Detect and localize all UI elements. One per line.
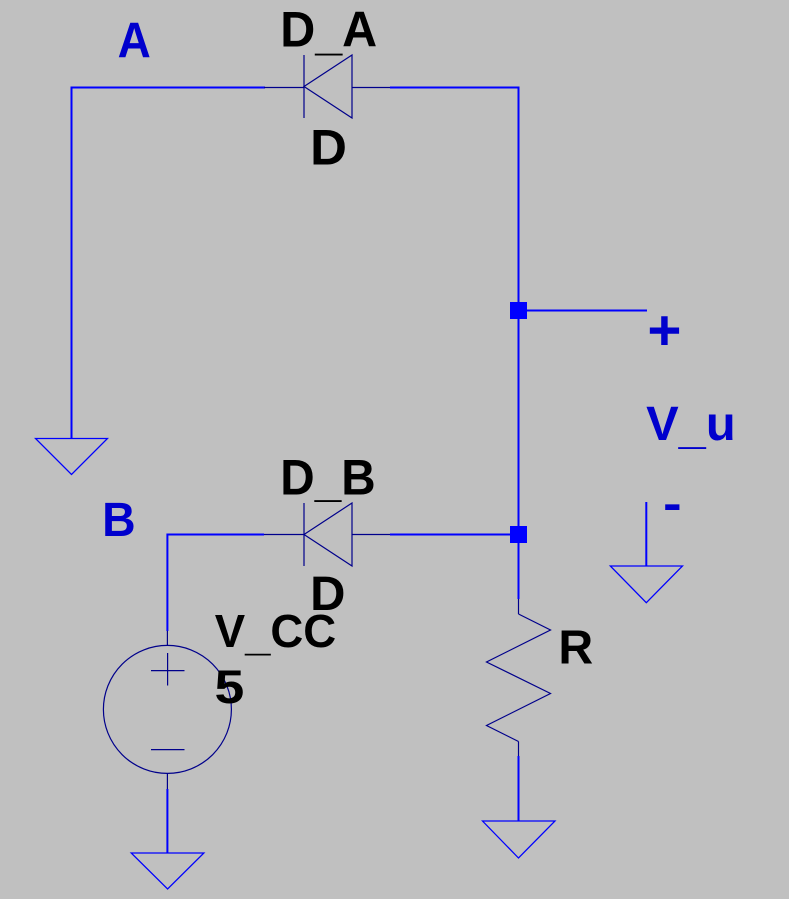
ground GND_VCC: [131, 853, 204, 889]
wire right vertical: [518, 87, 520, 600]
svg-text:V_CC: V_CC: [215, 605, 337, 660]
wire net B horizontal: [167, 534, 264, 536]
wire R to ground: [518, 756, 520, 821]
svg-text:D: D: [310, 120, 347, 176]
wire V_CC to ground: [166, 789, 168, 853]
wire net B vertical: [166, 534, 168, 632]
ground GND_Vu: [610, 502, 682, 603]
wire net A horizontal: [72, 87, 266, 89]
diode D_A: [264, 55, 390, 118]
svg-text:A: A: [118, 13, 151, 69]
wire net A vertical: [71, 87, 73, 439]
svg-text:-: -: [663, 478, 682, 531]
svg-text:5: 5: [215, 661, 245, 714]
wire D_A to node vu, horizontal: [390, 87, 520, 89]
junction node 1: [510, 302, 527, 319]
resistor R: [487, 599, 551, 756]
svg-text:+: +: [647, 299, 681, 362]
svg-text:D_A: D_A: [280, 1, 377, 60]
wire node1 to V_u plus terminal: [519, 310, 648, 312]
voltage source V_CC: [103, 631, 231, 789]
wire node2 to diode D_B: [390, 534, 519, 536]
ground GND_R: [483, 821, 556, 858]
diode D_B: [264, 503, 390, 566]
svg-text:V_u: V_u: [646, 398, 736, 454]
ground GND_A: [36, 439, 108, 475]
svg-text:B: B: [102, 493, 136, 547]
svg-text:R: R: [558, 621, 593, 675]
junction node 2: [510, 526, 527, 543]
svg-text:D_B: D_B: [280, 449, 375, 507]
